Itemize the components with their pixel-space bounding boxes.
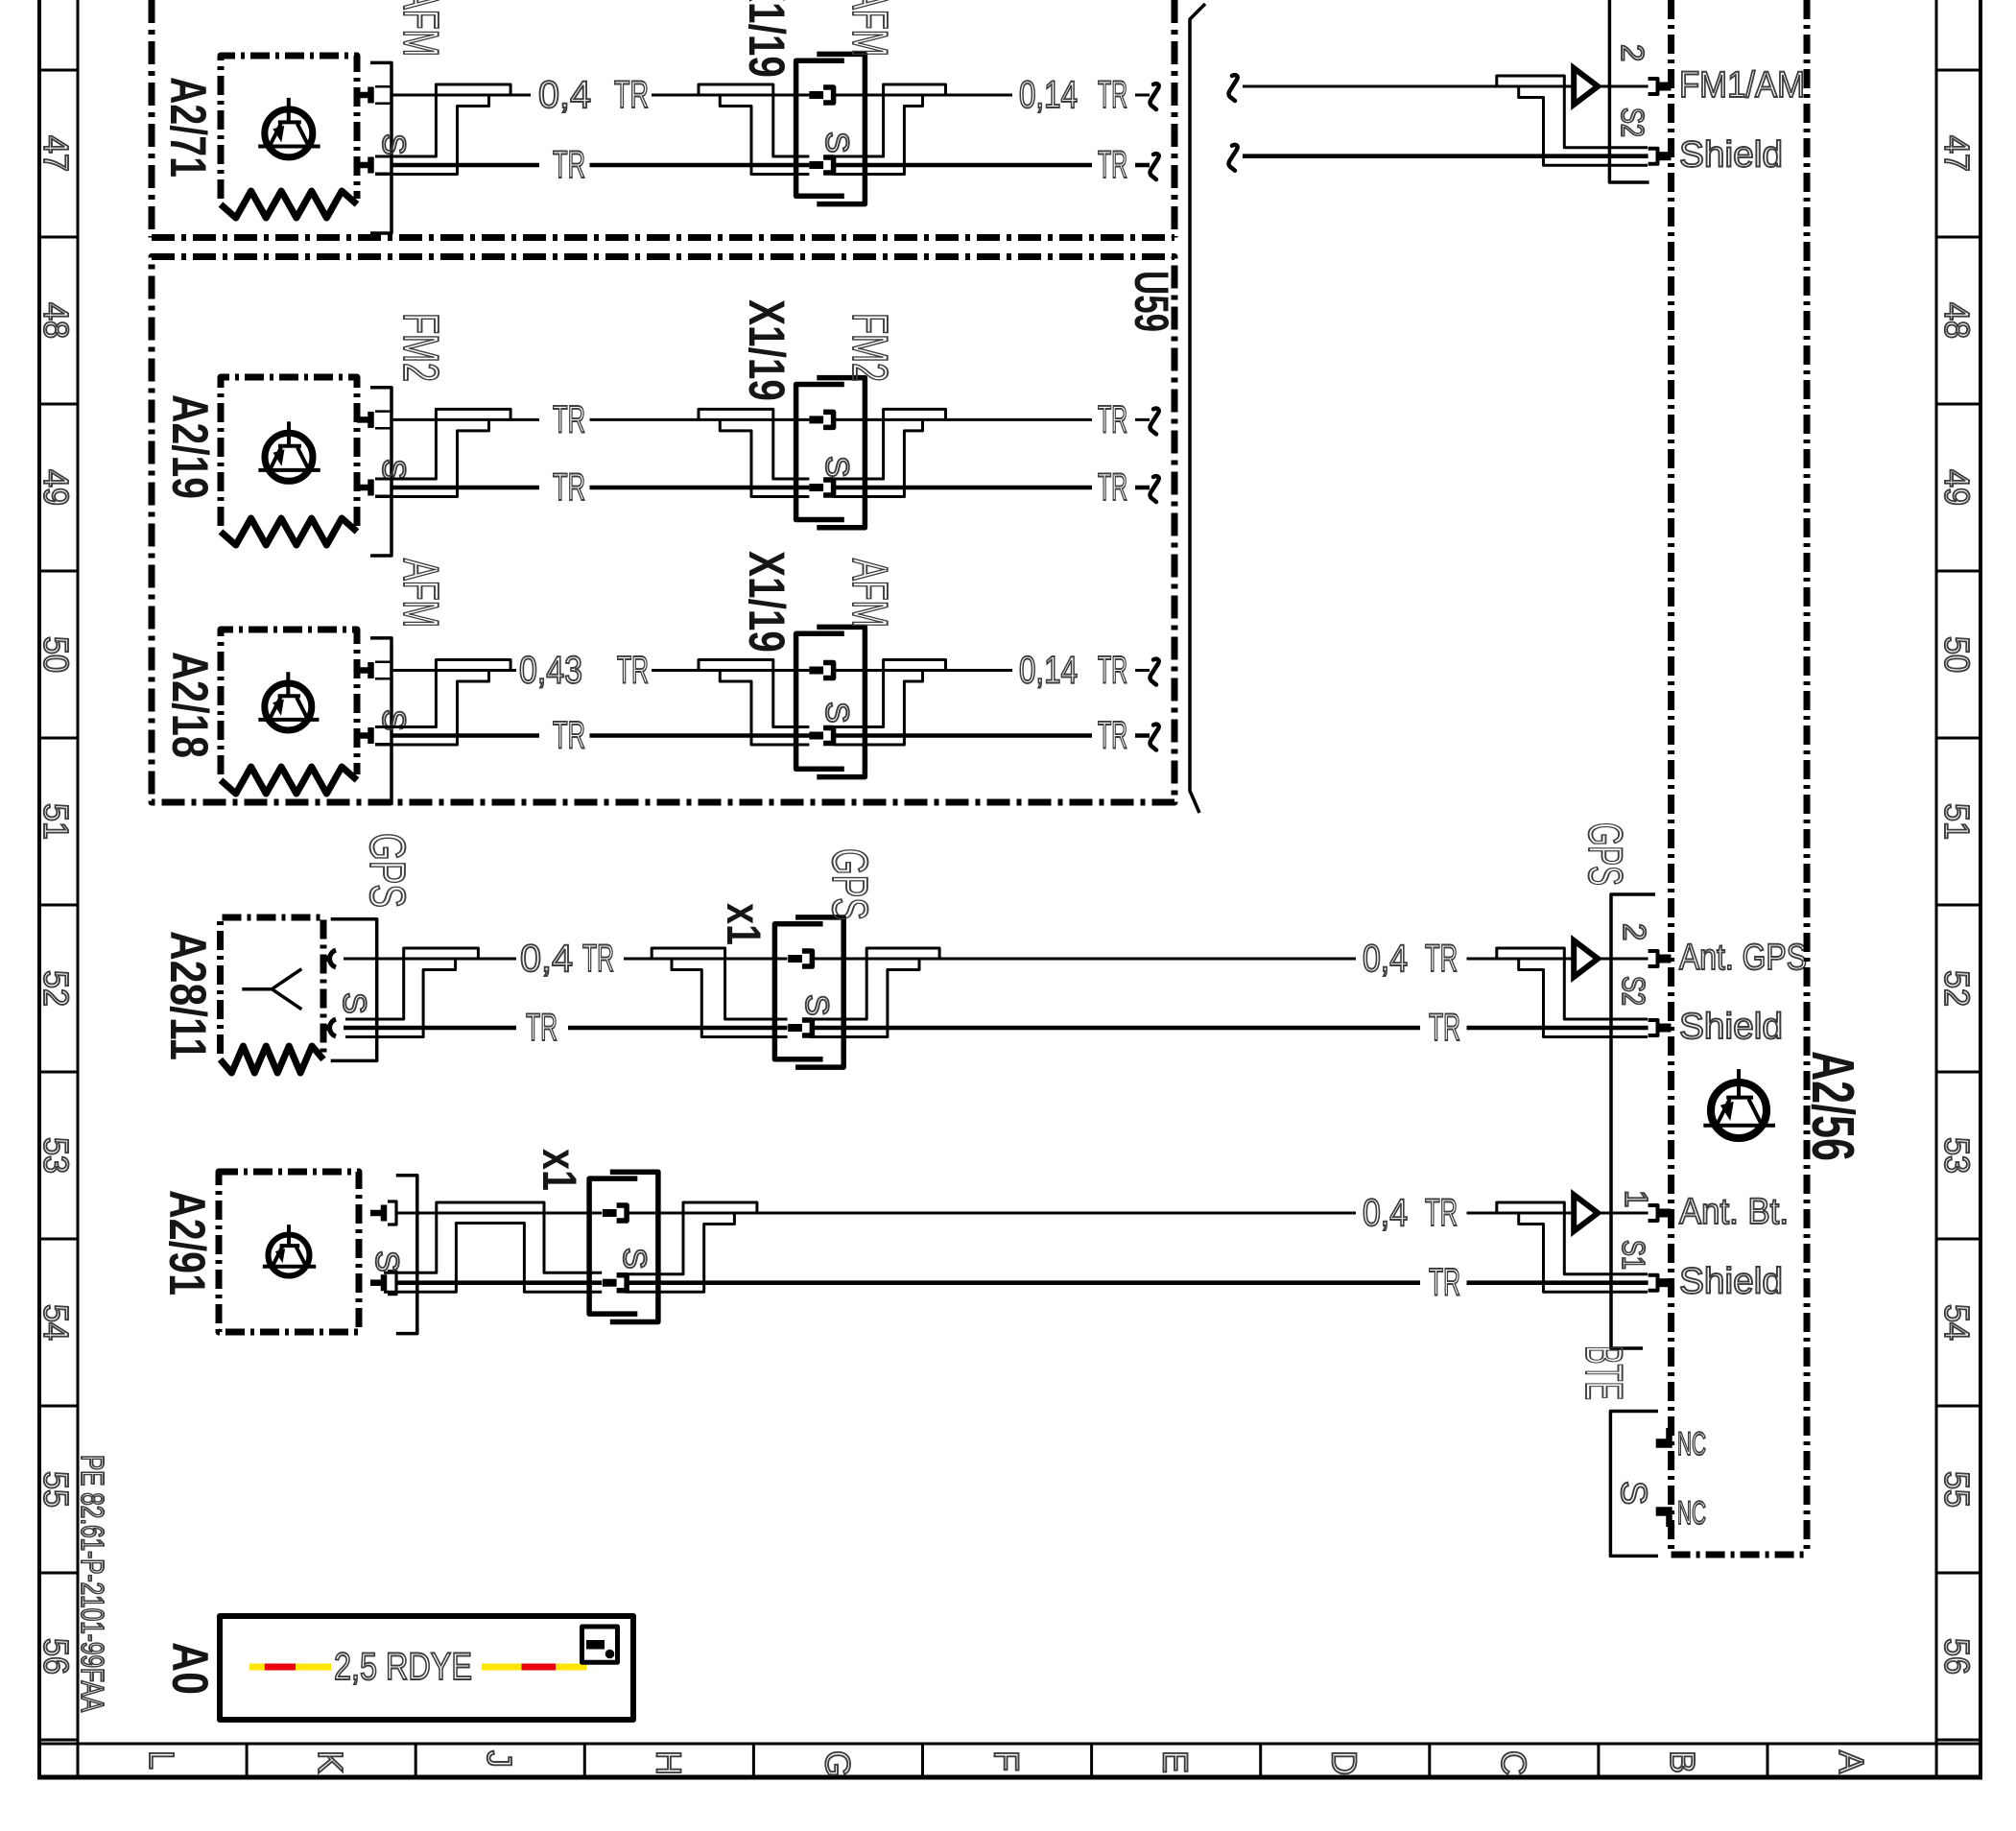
svg-text:2: 2 [1615, 44, 1650, 61]
svg-text:56: 56 [1937, 1638, 1977, 1675]
legend wire sample (red) [265, 1664, 296, 1671]
svg-text:A2/56: A2/56 [1799, 1051, 1865, 1161]
connector X1/19 row50: plug-side bracket [817, 627, 865, 776]
shield wrap after A2/71 row47 (shield outline) [375, 84, 510, 156]
svg-text:TR: TR [1425, 938, 1458, 980]
svg-text:FM2: FM2 [842, 313, 897, 382]
svg-text:E: E [1156, 1750, 1196, 1773]
A2/71 pin S (shield) row 47 [357, 162, 368, 169]
connector X1/19 row47: plug-side bracket [817, 54, 865, 203]
connector X1/19 row48 pin (signal) [809, 416, 823, 423]
svg-text:TR: TR [553, 715, 585, 757]
left row strip tick 7 [39, 1238, 78, 1241]
bottom column strip tick 3 [583, 1744, 586, 1777]
A2/56 antenna-amplifier symbol [1711, 1082, 1767, 1138]
svg-text:K: K [311, 1750, 350, 1773]
A2/56 housing bottom edge [1672, 1552, 1807, 1558]
A2/71 connector comb [370, 62, 391, 233]
svg-text:50: 50 [36, 636, 76, 673]
svg-text:H: H [649, 1750, 688, 1775]
legend wire sample (yellow) [249, 1664, 326, 1671]
A28/11 housing (dash-dot box) [221, 917, 324, 1054]
svg-text:S1: S1 [1616, 1240, 1651, 1270]
svg-text:S: S [818, 456, 855, 478]
svg-text:x1: x1 [717, 903, 771, 945]
A28/11 housing zigzag continuation edge [221, 1046, 324, 1073]
connector x1 row52: socket-side bracket [774, 924, 822, 1059]
svg-text:S: S [336, 992, 372, 1014]
left row strip tick 9 [39, 1572, 78, 1575]
row47 core wire-end continuation mark [1150, 83, 1159, 109]
right row strip tick 0 [1936, 69, 1980, 72]
connector x1 row52 pin S (shield) [788, 1024, 802, 1032]
U59 frame (upper) bottom edge [152, 234, 1174, 241]
svg-text:FM1/AM: FM1/AM [1679, 65, 1805, 106]
A2/91 pin S (shield) [370, 1279, 381, 1286]
right row strip tick 8 [1936, 1405, 1980, 1408]
row47 shield right wire-start continuation mark [1229, 145, 1238, 171]
svg-text:TR: TR [1429, 1262, 1460, 1304]
svg-text:0,4: 0,4 [520, 938, 573, 980]
connector X1/19 row50 pin (signal) [809, 667, 823, 675]
svg-text:2: 2 [1617, 923, 1652, 940]
right row strip tick 5 [1936, 904, 1980, 907]
A2/71 antenna-amplifier symbol [265, 109, 313, 157]
bottom column strip tick 8 [1428, 1744, 1431, 1777]
svg-text:GPS: GPS [821, 848, 877, 920]
A2/56 Ant. Bt. pin 1 terminal [1648, 1205, 1658, 1221]
svg-text:A0: A0 [161, 1642, 218, 1695]
svg-text:TR: TR [582, 938, 614, 980]
svg-text:C: C [1494, 1750, 1533, 1775]
svg-text:0,4: 0,4 [1363, 938, 1408, 980]
svg-text:TR: TR [1098, 144, 1127, 186]
svg-text:A2/18: A2/18 [161, 652, 218, 758]
inner border right (row strip) [1935, 0, 1938, 1744]
A28/11 antenna symbol [242, 987, 272, 991]
svg-text:53: 53 [36, 1137, 76, 1174]
A2/19 pin S (shield) [357, 485, 368, 491]
shield wrap after A2/18 (shield outline) [375, 660, 510, 727]
A0 legend box [220, 1616, 633, 1720]
shield wrap before A2/56 FM1/AM (shield outline) [1497, 76, 1648, 148]
svg-text:TR: TR [1098, 650, 1127, 692]
A2/56 Ant. GPS pin 2 terminal [1648, 951, 1658, 966]
svg-text:50: 50 [1937, 636, 1977, 673]
svg-text:Shield: Shield [1679, 135, 1783, 176]
svg-text:L: L [142, 1750, 181, 1770]
svg-text:TR: TR [553, 398, 585, 440]
connector X1/19 row48 pin S (shield) [809, 484, 823, 491]
shield wrap before x1 row52 (shield outline) [652, 948, 787, 1019]
shield wrap before X1/19 row48 (shield outline) [699, 409, 809, 479]
svg-text:53: 53 [1937, 1137, 1977, 1174]
connector X1/19 row47 pin S (shield) [809, 161, 823, 169]
svg-text:GPS: GPS [1578, 822, 1632, 886]
svg-text:BTE: BTE [1575, 1345, 1634, 1400]
shield wrap A2/91 to x1 (shield outline) [384, 1202, 602, 1272]
svg-text:48: 48 [1937, 302, 1977, 339]
shield wrap after x1 row53 (shield outline) [625, 1202, 757, 1274]
A2/18 pin S (shield) [357, 732, 368, 739]
wire row47 core to A2/56 FM1/AM [1243, 85, 1574, 88]
wire row52 core segments [344, 958, 1648, 961]
Ant. Bt. amplifier direction triangle [1574, 1195, 1598, 1231]
svg-text:47: 47 [1937, 135, 1977, 172]
legend wire sample right (yellow) [482, 1664, 586, 1671]
legend info icon [582, 1627, 618, 1662]
svg-text:NC: NC [1677, 1426, 1706, 1462]
svg-text:S: S [375, 459, 412, 481]
shield wrap after A28/11 (shield outline) [345, 948, 478, 1019]
shield wrap before X1/19 row50 (shield outline) [699, 660, 809, 727]
svg-text:TR: TR [614, 74, 649, 116]
shield wrap before A2/56 Ant. Bt. (shield outline) [1497, 1202, 1648, 1274]
svg-text:54: 54 [36, 1304, 76, 1341]
Ant. GPS amplifier direction triangle [1574, 940, 1598, 977]
A2/56 NC upper terminal [1656, 1439, 1672, 1448]
A2/18 antenna-amplifier symbol [265, 683, 312, 730]
wire row48 core segments [391, 418, 1150, 421]
svg-text:Shield: Shield [1679, 1262, 1783, 1302]
U59 frame (upper) right edge [1172, 0, 1178, 238]
svg-text:S: S [616, 1248, 652, 1270]
svg-text:51: 51 [1937, 803, 1977, 840]
wire row50 core segments [391, 669, 1150, 672]
svg-text:S2: S2 [1615, 107, 1650, 137]
shield wrap after X1/19 row48 (shield outline) [834, 409, 946, 479]
svg-text:X1/19: X1/19 [738, 0, 795, 78]
svg-text:2,5 RDYE: 2,5 RDYE [334, 1646, 472, 1688]
svg-text:TR: TR [1098, 715, 1127, 757]
svg-text:52: 52 [36, 970, 76, 1007]
A28/11 pin S (shield) [323, 1025, 329, 1032]
connector X1/19 row50 pin S (shield) [809, 732, 823, 740]
A2/19 housing (dash-dot box) [221, 377, 357, 526]
svg-text:S: S [375, 133, 412, 155]
connector X1/19 row50: socket-side bracket [796, 633, 844, 769]
A2/56 NC lower terminal [1656, 1507, 1672, 1516]
svg-text:x1: x1 [533, 1149, 586, 1191]
svg-text:AFM: AFM [842, 0, 897, 57]
legend wire sample right (red) [522, 1664, 557, 1671]
svg-text:FM2: FM2 [392, 313, 448, 382]
A2/18 housing zigzag continuation edge [221, 767, 357, 794]
svg-text:A2/91: A2/91 [158, 1190, 215, 1296]
connector X1/19 row48: socket-side bracket [796, 385, 844, 520]
svg-text:TR: TR [1425, 1192, 1458, 1234]
connector x1 row52 pin (signal) [788, 955, 802, 963]
svg-text:51: 51 [36, 803, 76, 840]
svg-text:S: S [818, 131, 855, 154]
U59 antenna module frame (upper part) left edge [149, 0, 155, 238]
svg-text:0,14: 0,14 [1019, 650, 1078, 692]
row49 shield wire-end continuation mark [1150, 476, 1159, 502]
svg-text:S: S [818, 701, 855, 724]
A2/56 FM1/AM shield pin S2 terminal [1648, 149, 1658, 164]
shield wrap after X1/19 row47 (shield outline) [834, 84, 946, 156]
svg-text:X1/19: X1/19 [738, 299, 795, 401]
connector x1 row53: plug-side bracket [610, 1172, 658, 1321]
svg-text:A2/19: A2/19 [161, 394, 218, 499]
wire row53 core segments [396, 1212, 1648, 1215]
connector X1/19 row47 pin (signal) [809, 91, 823, 99]
A28/11 connector comb [331, 919, 377, 1061]
connector X1/19 row48: plug-side bracket [817, 378, 865, 528]
right row strip tick 7 [1936, 1238, 1980, 1241]
svg-text:G: G [818, 1750, 857, 1777]
svg-text:PE 82.61-P-2101-99FAA: PE 82.61-P-2101-99FAA [75, 1455, 110, 1712]
svg-text:TR: TR [553, 144, 585, 186]
row47 shield wire-end continuation mark [1150, 154, 1159, 179]
shield wrap after X1/19 row50 (shield outline) [834, 660, 946, 727]
bottom column strip tick 11 [1935, 1744, 1938, 1777]
A2/91 antenna-amplifier symbol [269, 1235, 310, 1276]
svg-text:S: S [1613, 1481, 1653, 1505]
svg-text:1: 1 [1619, 1190, 1654, 1207]
right row strip tick 1 [1936, 236, 1980, 239]
svg-text:47: 47 [36, 135, 76, 172]
legend wire sample yellow segment 2 [296, 1664, 331, 1671]
A2/71 housing zigzag continuation edge [221, 191, 357, 218]
svg-text:0,4: 0,4 [1363, 1192, 1408, 1234]
svg-text:S2: S2 [1616, 976, 1651, 1006]
wire row49 shield segments [391, 486, 1150, 490]
svg-text:J: J [480, 1750, 519, 1768]
left row strip tick 10 [39, 1739, 78, 1742]
wire row47 core (0,4 TR) segments [391, 94, 1150, 97]
svg-text:NC: NC [1677, 1495, 1706, 1532]
A2/56 Ant. GPS shield pin S2 terminal [1648, 1020, 1658, 1035]
bottom column strip tick 9 [1597, 1744, 1600, 1777]
shield wrap after x1 row52 (shield outline) [811, 948, 940, 1019]
connector x1 row53 pin (signal) [603, 1209, 617, 1217]
left row strip tick 0 [39, 69, 78, 72]
A2/91 housing (dash-dot box) [219, 1172, 359, 1332]
wire row52 shield segments [344, 1026, 1648, 1031]
A2/56 Ant. Bt. shield pin S1 terminal [1648, 1275, 1658, 1291]
A2/71 pin (signal) row 47 [357, 92, 368, 99]
svg-text:F: F [987, 1750, 1027, 1772]
wire row47 core after triangle [1598, 85, 1648, 88]
page outer border left [37, 0, 41, 1777]
svg-text:48: 48 [36, 302, 76, 339]
A2/56 FM1/AM pin 2 terminal [1648, 79, 1658, 94]
left row strip tick 5 [39, 904, 78, 907]
A2/18 connector comb [370, 638, 391, 804]
bottom column strip tick 2 [415, 1744, 417, 1777]
bottom column strip tick 4 [752, 1744, 755, 1777]
left row strip tick 2 [39, 403, 78, 406]
bottom column strip tick 10 [1767, 1744, 1769, 1777]
svg-text:49: 49 [1937, 469, 1977, 506]
bottom column strip tick 0 [77, 1744, 80, 1777]
bottom column strip tick 7 [1259, 1744, 1262, 1777]
FM1/AM amplifier direction triangle [1574, 68, 1598, 105]
svg-text:TR: TR [617, 650, 649, 692]
A2/56 GPS connector bracket [1611, 894, 1655, 1348]
connector x1 row52: plug-side bracket [795, 917, 843, 1067]
A2/19 connector comb [370, 388, 391, 556]
A2/56 control unit housing left edge (dash-dot) [1668, 0, 1674, 1555]
A2/56 FM1/AM connector bracket [1609, 0, 1648, 182]
svg-text:52: 52 [1937, 970, 1977, 1007]
right row strip tick 2 [1936, 403, 1980, 406]
svg-text:55: 55 [36, 1471, 76, 1508]
shield wrap before A2/56 Ant. GPS (shield outline) [1497, 948, 1648, 1019]
svg-text:TR: TR [553, 466, 585, 509]
left row strip tick 6 [39, 1071, 78, 1074]
svg-text:GPS: GPS [359, 833, 415, 908]
A2/71 housing (dash-dot box) [221, 56, 357, 199]
svg-text:X1/19: X1/19 [738, 551, 795, 653]
inner border left (row strip) [77, 0, 80, 1744]
left row strip tick 1 [39, 236, 78, 239]
U59 continuation brace line [1190, 4, 1205, 813]
A2/19 pin (signal) [357, 416, 368, 423]
svg-text:AFM: AFM [842, 559, 897, 628]
A2/91 connector comb [396, 1176, 417, 1334]
page outer border bottom [37, 1775, 1982, 1780]
connector x1 row53 pin S (shield) [603, 1279, 617, 1287]
svg-text:54: 54 [1937, 1304, 1977, 1341]
A2/19 antenna-amplifier symbol [265, 433, 313, 481]
svg-text:A28/11: A28/11 [159, 931, 216, 1060]
svg-text:Ant. GPS: Ant. GPS [1679, 938, 1807, 978]
wire row47 shield to A2/56 [1243, 154, 1648, 158]
svg-text:S: S [368, 1250, 405, 1272]
wire row47 shield (TR) segments [391, 163, 1150, 168]
row47 core right wire-start continuation mark [1229, 75, 1238, 101]
A28/11 pin (signal) [323, 956, 329, 963]
U59 frame (lower part) [152, 257, 1174, 803]
svg-text:TR: TR [1098, 466, 1127, 509]
A2/18 pin (signal) [357, 667, 368, 674]
A2/19 housing zigzag continuation edge [221, 518, 357, 545]
left row strip tick 8 [39, 1405, 78, 1408]
svg-text:56: 56 [36, 1638, 76, 1675]
svg-text:A2/71: A2/71 [159, 77, 216, 178]
svg-text:D: D [1325, 1750, 1364, 1775]
svg-text:TR: TR [1098, 74, 1127, 116]
left row strip tick 3 [39, 570, 78, 573]
row50 shield wire-end continuation mark [1150, 725, 1159, 750]
left row strip tick 4 [39, 737, 78, 740]
svg-text:0,43: 0,43 [519, 650, 582, 692]
svg-text:TR: TR [1098, 398, 1127, 440]
svg-text:0,4: 0,4 [538, 74, 591, 116]
shield wrap before X1/19 row47 (shield outline) [699, 84, 809, 156]
page outer border right [1979, 0, 1982, 1777]
wire row53 shield segments [396, 1280, 1648, 1285]
svg-text:0,14: 0,14 [1019, 74, 1078, 116]
A2/56 housing right edge [1804, 0, 1811, 1555]
A2/91 pin (signal) [370, 1210, 381, 1217]
right row strip tick 6 [1936, 1071, 1980, 1074]
row50 core wire-end continuation mark [1150, 659, 1159, 685]
svg-text:B: B [1663, 1750, 1702, 1773]
svg-text:55: 55 [1937, 1471, 1977, 1508]
bottom column strip tick 6 [1090, 1744, 1093, 1777]
bottom column strip tick 1 [246, 1744, 249, 1777]
right row strip tick 10 [1936, 1739, 1980, 1742]
svg-text:Shield: Shield [1679, 1007, 1783, 1047]
bottom column strip tick 5 [921, 1744, 924, 1777]
A2/18 housing (dash-dot box) [221, 630, 357, 774]
svg-text:Ant. Bt.: Ant. Bt. [1679, 1192, 1789, 1232]
wire row50 shield segments [391, 733, 1150, 738]
svg-text:A: A [1832, 1750, 1871, 1773]
shield wrap after A2/19 (shield outline) [375, 409, 510, 479]
right row strip tick 4 [1936, 737, 1980, 740]
connector x1 row53: socket-side bracket [589, 1178, 637, 1314]
A2/56 BTE connector bracket [1610, 1412, 1658, 1557]
svg-text:TR: TR [1429, 1007, 1460, 1049]
svg-text:U59: U59 [1125, 271, 1178, 332]
right row strip tick 9 [1936, 1572, 1980, 1575]
svg-text:49: 49 [36, 469, 76, 506]
right row strip tick 3 [1936, 570, 1980, 573]
inner border bottom (column strip) [39, 1743, 1980, 1746]
svg-text:TR: TR [526, 1007, 557, 1049]
svg-text:AFM: AFM [392, 0, 448, 57]
svg-text:S: S [798, 994, 835, 1016]
row48 core wire-end continuation mark [1150, 409, 1159, 435]
svg-text:AFM: AFM [392, 559, 448, 628]
connector X1/19 row47: socket-side bracket [796, 60, 844, 196]
